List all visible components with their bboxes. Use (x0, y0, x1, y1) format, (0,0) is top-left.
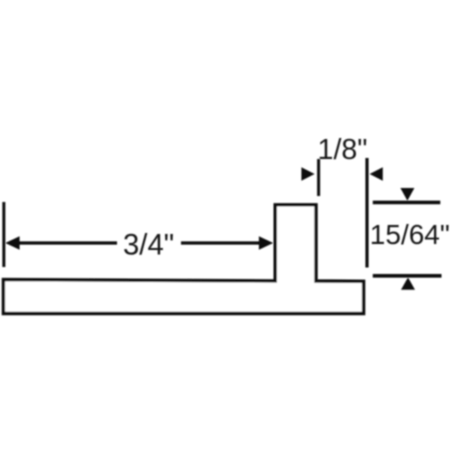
dim line 3/4 right segment (181, 241, 261, 244)
svg-text:15/64": 15/64" (370, 219, 450, 250)
svg-text:3/4": 3/4" (123, 229, 174, 262)
arrow 15/64 up (401, 277, 415, 289)
arrow left 3/4 (5, 236, 19, 249)
extension line 1/8 right long (365, 158, 368, 268)
arrow 1/8 pointing left (370, 167, 383, 181)
dim line 3/4 left segment (17, 241, 117, 244)
extension tick 1/8 left (317, 159, 320, 196)
arrow 15/64 down (400, 188, 414, 201)
arrow right 3/4 (259, 236, 273, 249)
svg-text:1/8": 1/8" (318, 134, 368, 166)
dim line 15/64 top (373, 201, 441, 205)
extension line left (2, 202, 5, 267)
profile outline (3, 205, 363, 314)
arrow 1/8 pointing right (301, 167, 314, 181)
dim line 15/64 bottom (373, 274, 442, 278)
